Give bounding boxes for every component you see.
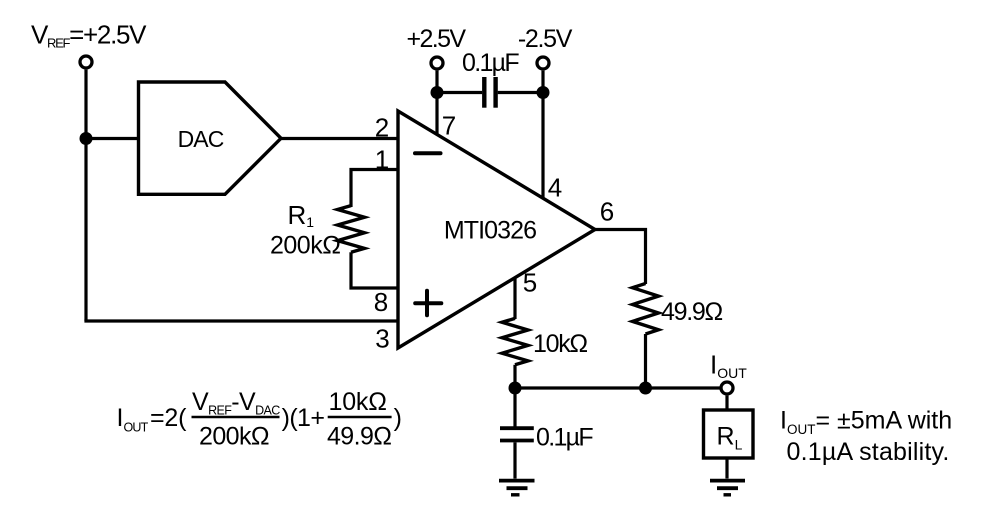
junction dot +2.5V — [431, 86, 444, 99]
svg-text:+2.5V: +2.5V — [406, 25, 466, 53]
svg-text:)(1+: )(1+ — [282, 404, 325, 432]
terminal -2.5V — [537, 57, 549, 69]
wire 49.9 resistor to output node — [644, 334, 647, 388]
wire VREF to DAC input — [86, 137, 139, 140]
junction dot node right — [639, 382, 652, 395]
wire capacitor C2 to ground — [513, 442, 516, 478]
svg-text:6: 6 — [600, 197, 614, 227]
wire -2.5V to pin 4 — [541, 71, 544, 199]
wire DAC output to op-amp pin 2 — [281, 137, 398, 140]
resistor 10k zigzag — [502, 318, 528, 364]
junction dot VREF-DAC — [80, 132, 93, 145]
svg-text:49.9Ω: 49.9Ω — [661, 298, 722, 326]
svg-text:49.9Ω: 49.9Ω — [327, 423, 391, 451]
svg-text:0.1µF: 0.1µF — [536, 424, 593, 452]
ground symbol below RL — [710, 479, 745, 483]
wire +2.5V to pin 7 — [435, 71, 438, 135]
junction dot -2.5V — [537, 86, 550, 99]
wire junction to capacitor C1 left plate — [437, 91, 482, 94]
svg-text:10kΩ: 10kΩ — [329, 388, 387, 416]
svg-text:): ) — [394, 404, 402, 432]
svg-text:3: 3 — [375, 324, 389, 354]
svg-text:7: 7 — [442, 111, 456, 141]
svg-text:-2.5V: -2.5V — [518, 25, 573, 53]
svg-text:5: 5 — [523, 268, 537, 298]
op-amp minus input symbol — [415, 151, 441, 155]
svg-text:0.1µF: 0.1µF — [462, 49, 519, 77]
wire pin 5 — [513, 278, 516, 319]
wire pin 1 feedback — [351, 170, 398, 208]
capacitor C1 plates — [482, 77, 486, 108]
svg-text:1: 1 — [375, 145, 389, 175]
svg-text:8: 8 — [374, 287, 388, 317]
op-amp U1 triangle — [398, 111, 595, 348]
svg-text:0.1µA stability.: 0.1µA stability. — [787, 438, 950, 466]
junction dot node left — [509, 382, 522, 395]
svg-text:4: 4 — [548, 173, 562, 203]
formula fraction bar 1 — [192, 416, 280, 419]
resistor 49.9 zigzag — [633, 284, 659, 335]
terminal +2.5V — [431, 57, 443, 69]
capacitor C2 plates — [500, 426, 534, 430]
wire capacitor C1 right plate to junction — [498, 91, 543, 94]
wire pin 6 output — [595, 230, 646, 285]
terminal VREF — [80, 56, 92, 68]
svg-text:2: 2 — [375, 113, 389, 143]
wire IOUT terminal to RL — [725, 396, 728, 410]
DAC block — [139, 82, 282, 194]
wire RL to ground — [725, 458, 728, 479]
svg-text:10kΩ: 10kΩ — [533, 330, 587, 358]
ground symbol below C2 — [499, 479, 535, 483]
svg-text:200kΩ: 200kΩ — [199, 423, 269, 451]
resistor RL box — [704, 410, 754, 458]
wire VREF down to pin 3 row — [84, 70, 87, 321]
op-amp plus input symbol — [415, 301, 441, 305]
wire 10k resistor to output node — [513, 365, 516, 388]
wire pin 8 feedback — [351, 252, 398, 288]
svg-text:DAC: DAC — [178, 126, 224, 152]
svg-text:MTI0326: MTI0326 — [444, 217, 536, 245]
svg-text:200kΩ: 200kΩ — [270, 232, 340, 260]
svg-text:=2(: =2( — [150, 404, 187, 432]
wire VREF to pin 3 — [84, 319, 398, 322]
formula fraction bar 2 — [328, 416, 392, 419]
wire output node horizontal — [515, 386, 722, 389]
resistor R1 zigzag — [338, 206, 365, 253]
terminal IOUT — [721, 382, 733, 394]
wire node down to capacitor C2 — [513, 388, 516, 427]
